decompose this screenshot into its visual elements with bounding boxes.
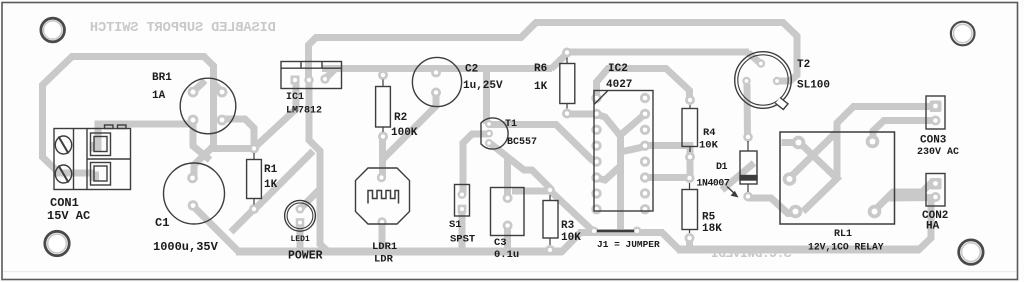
wire bus step up [561,233,580,253]
resistor R5 body [682,183,698,233]
wire bus step down [662,233,679,250]
svg-text:1K: 1K [264,179,278,191]
node S1 pads [458,190,467,213]
svg-text:0.1u: 0.1u [494,249,519,261]
svg-text:4027: 4027 [606,79,632,91]
wire C3 top branch [504,157,511,198]
svg-text:R3: R3 [561,220,575,232]
wire relay TR to CON3 bottom [873,121,936,142]
svg-text:BR1: BR1 [152,72,172,84]
resistor R2 body [376,80,391,133]
faint scan line [2,271,1017,273]
wire IC2 inner to pin15 [597,115,621,137]
wire R5 bottom stub [686,238,693,250]
node LDR1 pads [377,173,387,227]
svg-text:POWER: POWER [288,250,323,263]
wire IC2 inner to row4 [621,147,646,153]
wire bus y148 [209,145,255,152]
svg-text:C1: C1 [155,216,169,230]
svg-text:1A: 1A [152,90,166,102]
wire C2 bottom to LDR node [383,93,436,159]
wire bus to CON2 bottom [918,197,931,251]
wire IC1 pin3 stub [325,69,335,79]
wire T2 top pad stub [748,53,760,64]
wire S1 bottom to bus [459,209,466,252]
svg-text:LED1: LED1 [291,235,310,244]
mounting hole bottom-right [959,240,983,264]
svg-text:IC1: IC1 [286,92,304,103]
node R3 pads [545,185,555,255]
svg-text:15V AC: 15V AC [47,209,90,223]
connector CON1 terminal block [54,125,131,190]
node BR1 pads [188,87,228,126]
svg-text:10K: 10K [561,232,581,244]
wire C3 bottom to bus [504,226,511,252]
node R1 pads [249,144,259,215]
wire relay BR to CON2 top [873,184,936,212]
wire CON1 top cage to BR1 SW pad [94,124,194,148]
node CON1 cage pads [90,142,100,181]
svg-text:12V,1CO RELAY: 12V,1CO RELAY [808,242,884,253]
svg-text:T1: T1 [505,119,517,130]
node T2 pads [742,59,781,85]
wire T1 collector to R3 top [491,144,550,188]
node CON2 pads [930,178,942,202]
node C1 pads [187,173,198,211]
connector CON3 body [926,96,945,129]
wire R6 bottom to IC2 [567,111,597,118]
wire IC2 center vertical [621,114,646,234]
wire BR1 SW pad down merge [193,121,210,160]
wire to CON2 bottom pad [887,194,936,202]
svg-text:C2: C2 [465,64,478,76]
svg-text:10K: 10K [699,140,719,152]
svg-text:J1 = JUMPER: J1 = JUMPER [597,239,660,250]
node R4 pads [685,95,695,162]
wire T2 left pad to D1 top [744,84,752,137]
capacitor C3 body [491,188,525,236]
wire IC2 inner to pin11 [597,166,621,180]
regulator IC1 LM7812 [281,62,342,89]
svg-text:S1: S1 [449,219,462,231]
LDR LDR1 outline [356,168,410,224]
wire rail chamfer to R6 top [551,53,568,69]
svg-text:LDR1: LDR1 [372,241,397,253]
mounting hole bottom-left [45,231,69,255]
svg-text:100K: 100K [391,127,418,139]
wire R2 bottom to LDR1 top [379,136,386,178]
resistor R4 body [682,105,698,152]
wire bus jumper segment [578,229,664,236]
svg-text:LDR: LDR [374,254,394,266]
svg-text:R1: R1 [264,164,278,176]
node R6 pads [562,48,572,119]
svg-text:1K: 1K [534,81,548,93]
wire CON1 screw to left loop to C1 top [43,57,214,179]
node T1 pads [485,120,493,147]
svg-text:HA: HA [926,221,940,233]
svg-text:1000u,35V: 1000u,35V [153,240,219,254]
wire bottom bus right [677,246,920,254]
wire BR1 NW pad stub [193,81,205,93]
wire R4 bottom to R5 top [687,156,694,178]
wire relay TL pad west stub [782,139,800,146]
svg-text:CON3: CON3 [920,135,947,147]
diode D1 body [740,141,757,192]
wire relay TL to BL V-trace [801,144,837,212]
node CON3 pads [930,101,942,126]
relay RL1 body [780,132,895,224]
svg-text:1u,25V: 1u,25V [463,80,503,92]
wire IC2 row6 to R5 top [645,174,690,181]
wire T1 top pad to IC2 pin row5 [490,125,597,162]
node C2 pads [431,68,441,98]
IC U2 4027 body [594,91,653,212]
svg-text:LM7812: LM7812 [286,106,322,117]
resistor R6 body [560,58,575,109]
wire R2 top stub [381,68,386,75]
wire ground loop top [309,23,798,82]
svg-text:C3: C3 [494,237,507,249]
transistor T1 BC557 [481,118,508,149]
mounting hole top-left [41,18,65,42]
node LED1 pads [296,205,305,227]
wire BR1 NE pad stub [212,82,222,93]
svg-text:DISABLED SUPPORT SWITCH: DISABLED SUPPORT SWITCH [90,21,276,36]
wire R1 top to IC1 pin1 [255,83,296,147]
node D1 pads [743,132,753,201]
svg-text:1N4007: 1N4007 [697,178,730,189]
wire LDR1 bottom to bus [379,222,386,252]
svg-text:BC557: BC557 [507,137,537,148]
node IC2 pads right column [640,93,650,215]
wire C1 bottom to bus [193,206,239,252]
svg-text:D1: D1 [716,162,728,173]
capacitor C1 [164,163,225,224]
svg-text:IC2: IC2 [608,63,628,75]
wire bottom bus left [236,248,563,256]
switch S1 body [455,185,470,217]
wire R1 bottom to bus [231,209,254,232]
jumper J1 wire [597,230,634,232]
wire 12V rail horizontal [322,65,552,72]
wire IC2 row4 to R4 bottom [645,146,690,159]
svg-text:230V AC: 230V AC [917,147,959,158]
node IC2 pads left column [591,93,601,215]
arrow pointing to D1 pad [727,187,739,198]
node J1 pads [590,227,642,236]
wire T1 base to S1 [463,134,488,195]
svg-text:R4: R4 [703,127,716,139]
capacitor C2 [412,57,461,106]
wire R1 bottom to ground trace [254,151,313,210]
svg-text:R2: R2 [394,112,407,124]
wire R3 top to J1 left pad [551,192,593,232]
node C3 pads [503,193,513,231]
node R2 pads [378,70,388,142]
wire R3 top to C3 [512,188,550,195]
svg-text:RL1: RL1 [834,229,852,240]
wire rail R6 to T2 [566,49,749,56]
wire CON3 top to relay center vertical [837,107,936,180]
svg-text:T2: T2 [797,59,810,71]
mounting hole top-right [951,22,975,46]
wire relay ML diagonal [790,133,836,178]
wire CON1 bottom cage feed [56,170,94,177]
svg-text:R6: R6 [534,63,547,75]
wire T1 emitter up to rail [483,68,490,124]
wire D1 bottom to relay BL [748,198,796,214]
transistor T2 SL100 can [735,52,792,110]
svg-text:SPST: SPST [450,234,475,246]
node RL1 pads [783,135,882,219]
wire D1 top diagonal to R5 node [722,163,754,190]
resistor R3 body [543,195,558,245]
bridge rectifier BR1 [180,78,236,134]
node R5 pads [685,173,695,243]
resistor R1 body [247,153,262,205]
wire IC2 pin16 to rail to R4 top [597,69,690,103]
LED LED1 [285,200,316,231]
svg-text:CON1: CON1 [50,196,79,210]
svg-text:R5: R5 [702,212,716,224]
node IC1 pads [291,74,330,84]
connector CON2 body [926,174,945,207]
svg-text:18K: 18K [702,223,722,235]
svg-text:SL100: SL100 [797,80,830,92]
svg-text:S.C.DWIVEDI: S.C.DWIVEDI [711,246,791,261]
wire LED1 cathode to bus [297,221,304,252]
wire LED1 anode diagonal [300,188,321,209]
wire BR1 SE pad to R1 top [222,119,254,149]
wire IC1 pin2 ground down [309,83,328,252]
